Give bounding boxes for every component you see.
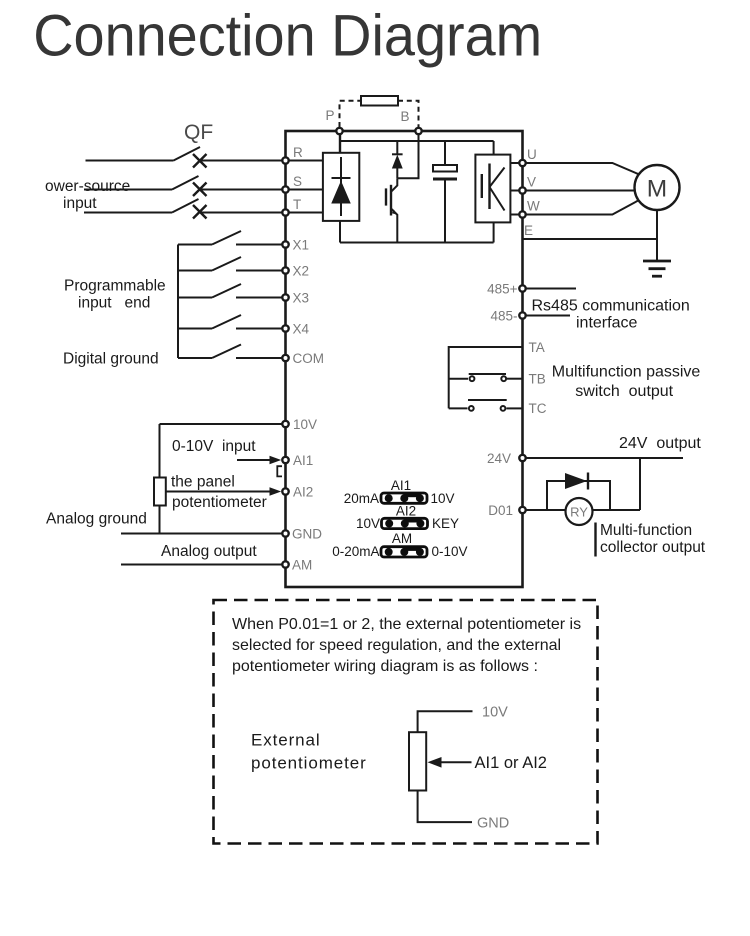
relay contact TC (449, 400, 523, 411)
output inverter module (475, 155, 510, 223)
terminal V (519, 187, 525, 193)
wire E earth (523, 238, 658, 240)
jumper J-AI1 (344, 478, 455, 506)
terminal AM (282, 561, 288, 567)
terminal X1 (282, 241, 288, 247)
svg-text:potentiometer wiring diagram i: potentiometer wiring diagram is as follo… (232, 658, 538, 675)
switch X4 (178, 315, 286, 329)
svg-text:Multi-function: Multi-function (600, 522, 692, 539)
svg-text:T: T (293, 197, 301, 212)
svg-text:X2: X2 (293, 264, 310, 279)
svg-text:S: S (293, 174, 302, 189)
wire 24V output (523, 457, 684, 459)
wire V to motor (523, 190, 635, 192)
wire analog ground GND (121, 533, 286, 535)
svg-text:AI1: AI1 (391, 478, 411, 493)
pot wiper arrow (440, 761, 472, 763)
svg-text:collector output: collector output (600, 539, 706, 556)
svg-text:potentiometer: potentiometer (172, 494, 267, 511)
note dashed box (214, 600, 598, 844)
terminal 485- (519, 312, 525, 318)
jumper J-AI2 (356, 504, 459, 532)
svg-text:X1: X1 (293, 238, 310, 253)
terminal D01 (519, 507, 525, 513)
svg-text:Analog ground: Analog ground (46, 511, 147, 528)
svg-text:input: input (63, 195, 97, 212)
svg-text:E: E (524, 223, 533, 238)
svg-text:KEY: KEY (432, 516, 459, 531)
svg-text:selected for speed regulation,: selected for speed regulation, and the e… (232, 637, 561, 654)
svg-text:M: M (647, 176, 667, 203)
inverter main enclosure (286, 131, 523, 587)
wire inverter to V (510, 190, 522, 192)
wire S lead-in (84, 189, 172, 191)
svg-text:switch output: switch output (575, 383, 673, 400)
wire 485+ stub (523, 288, 577, 290)
wire U to motor (523, 163, 639, 174)
wire S to rectifier (286, 189, 323, 191)
switch X1 (178, 231, 286, 245)
terminal R (282, 157, 288, 163)
earth ground symbol (643, 261, 671, 276)
external potentiometer body (409, 732, 426, 790)
label multi-function collector output (594, 523, 596, 557)
wire DC- bottom bus (340, 242, 494, 244)
wire T lead-in (84, 212, 172, 214)
svg-text:AM: AM (392, 531, 412, 546)
svg-text:V: V (527, 175, 536, 190)
svg-text:0-10V input: 0-10V input (172, 438, 256, 455)
svg-text:24V: 24V (487, 451, 511, 466)
wire 485- stub (523, 315, 571, 317)
svg-text:External: External (251, 731, 321, 750)
terminal S (282, 186, 288, 192)
svg-text:interface: interface (576, 315, 637, 332)
wire potentiometer to analog ground (159, 506, 161, 534)
svg-text:COM: COM (293, 351, 325, 366)
wire R to terminal (200, 160, 286, 162)
braking resistor (361, 96, 398, 106)
svg-text:B: B (400, 109, 409, 124)
relay coil RY (566, 498, 593, 525)
svg-text:ower-source: ower-source (45, 178, 130, 195)
svg-text:0-20mA: 0-20mA (332, 544, 379, 559)
svg-text:10V: 10V (293, 417, 317, 432)
svg-text:U: U (527, 147, 537, 162)
switch COM (178, 345, 286, 359)
wire analog output AM (121, 564, 286, 566)
wire motor to ground (656, 210, 658, 261)
wire TA (449, 347, 523, 408)
breaker contact X mark T (193, 205, 207, 219)
svg-text:TC: TC (529, 401, 547, 416)
wire dashed P to resistor (340, 101, 362, 127)
svg-text:X3: X3 (293, 291, 310, 306)
terminal 10V (282, 421, 288, 427)
svg-text:Rs485 communication: Rs485 communication (532, 298, 690, 315)
svg-text:485-: 485- (490, 309, 517, 324)
wire dashed resistor to B (398, 101, 419, 127)
breaker contact X mark R (193, 154, 207, 168)
motor M1 (635, 165, 680, 210)
svg-text:Analog output: Analog output (161, 543, 257, 560)
svg-text:10V: 10V (431, 491, 455, 506)
terminal COM (282, 355, 288, 361)
breaker contact X mark S (193, 183, 207, 197)
wire R lead-in (86, 160, 174, 162)
svg-text:GND: GND (292, 527, 322, 542)
wire relay branch up to 24V (639, 458, 641, 510)
brake IGBT Q1 (386, 178, 397, 242)
svg-text:TA: TA (529, 340, 545, 355)
svg-text:0-10V: 0-10V (432, 544, 468, 559)
wire pot to 10V (418, 711, 473, 732)
svg-text:24V output: 24V output (619, 435, 701, 452)
svg-text:R: R (293, 145, 303, 160)
breaker pole blade S (172, 176, 199, 190)
flyback diode loop (547, 473, 610, 511)
svg-text:10V: 10V (356, 516, 380, 531)
terminal AI2 (282, 488, 288, 494)
svg-text:Multifunction passive: Multifunction passive (552, 364, 701, 381)
svg-text:input end: input end (78, 295, 150, 312)
breaker pole blade T (172, 199, 199, 213)
terminal GND (282, 530, 288, 536)
wire inverter to U (510, 162, 522, 164)
svg-text:D01: D01 (488, 503, 513, 518)
svg-text:TB: TB (529, 372, 546, 387)
svg-text:20mA: 20mA (344, 491, 379, 506)
bracket mark under AI1 (277, 466, 282, 476)
wire inverter to W (510, 214, 522, 216)
wire DC+ top bus (340, 140, 494, 142)
svg-text:AI2: AI2 (396, 504, 416, 519)
rectifier bridge (323, 153, 359, 221)
svg-text:W: W (527, 199, 540, 214)
relay contact TB (449, 374, 523, 381)
brake chopper diode (392, 141, 403, 178)
wire 10V feed (160, 423, 286, 425)
wire S to terminal (200, 189, 286, 191)
svg-text:Programmable: Programmable (64, 278, 166, 295)
terminal T (282, 209, 288, 215)
svg-text:485+: 485+ (487, 282, 518, 297)
terminal B (415, 128, 421, 134)
terminal P (336, 128, 342, 134)
jumper J-AM (332, 531, 467, 559)
svg-text:RY: RY (570, 505, 588, 520)
wire W to motor (523, 200, 639, 214)
svg-text:QF: QF (184, 121, 213, 144)
terminal 485+ (519, 285, 525, 291)
wire pot to GND (418, 791, 472, 823)
svg-text:Digital ground: Digital ground (63, 351, 159, 368)
wire D01 through relay (523, 509, 641, 511)
digital input common bus wire (177, 245, 179, 359)
svg-text:10V: 10V (482, 705, 508, 721)
wire B to chopper node (397, 131, 418, 178)
svg-text:X4: X4 (293, 322, 310, 337)
switch X2 (178, 257, 286, 271)
svg-text:potentiometer: potentiometer (251, 754, 367, 773)
dc-bus capacitor (433, 141, 457, 243)
arrow into AI2 (166, 491, 272, 493)
svg-text:Connection Diagram: Connection Diagram (33, 3, 542, 68)
wire 10V down to potentiometer (159, 424, 161, 478)
terminal X3 (282, 294, 288, 300)
panel potentiometer resistor (154, 478, 166, 506)
terminal 24V (519, 455, 525, 461)
svg-text:the panel: the panel (171, 474, 235, 491)
wire P to rectifier top (340, 131, 341, 153)
wire T to terminal (200, 212, 286, 214)
terminal W (519, 211, 525, 217)
wire bus to inverter top (493, 141, 495, 155)
svg-text:P: P (325, 108, 334, 123)
svg-text:AI2: AI2 (293, 485, 313, 500)
svg-text:When P0.01=1 or 2, the externa: When P0.01=1 or 2, the external potentio… (232, 616, 581, 633)
svg-text:AI1: AI1 (293, 453, 313, 468)
wire T to rectifier (286, 212, 323, 214)
wire rectifier bottom to bus (339, 221, 341, 243)
wire R to rectifier (286, 160, 323, 162)
terminal AI1 (282, 457, 288, 463)
terminal U (519, 160, 525, 166)
svg-text:AI1 or AI2: AI1 or AI2 (475, 754, 547, 772)
svg-text:AM: AM (292, 558, 312, 573)
wire inverter bottom to bus (493, 222, 495, 242)
svg-text:GND: GND (477, 816, 509, 832)
arrow into AI1 (237, 459, 272, 461)
switch X3 (178, 284, 286, 298)
terminal X4 (282, 325, 288, 331)
terminal X2 (282, 267, 288, 273)
breaker pole blade R (174, 147, 201, 161)
